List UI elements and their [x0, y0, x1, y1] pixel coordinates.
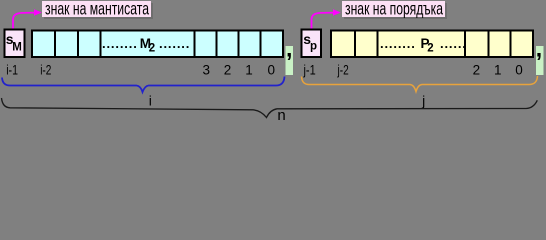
svg-text:i: i [149, 93, 152, 109]
arrow from sp box to exponent-sign label [312, 9, 341, 28]
radix point strip (comma) between mantissa and exponent [286, 36, 294, 76]
exponent register box [331, 31, 533, 58]
arrow from sM box to mantissa-sign label [13, 9, 42, 28]
radix point strip (comma) at far right [536, 36, 544, 76]
svg-text:j-1: j-1 [303, 63, 316, 78]
bit index labels under mantissa [6, 63, 275, 78]
orange brace spanning exponent field (width j) [302, 76, 538, 92]
svg-text:j-2: j-2 [337, 63, 349, 78]
label: знак на мантисата [42, 0, 153, 19]
mantissa middle cell content: dots and M2 [102, 36, 190, 55]
black brace spanning whole word (width n) [2, 98, 538, 118]
svg-text:......: ...... [440, 36, 467, 51]
sign box sM (mantissa sign) [5, 30, 25, 58]
svg-text:знак на мантисата: знак на мантисата [45, 0, 149, 18]
svg-text:2: 2 [473, 63, 481, 78]
svg-text:2: 2 [149, 43, 155, 55]
svg-text:p: p [310, 40, 317, 52]
svg-text:1: 1 [494, 63, 502, 78]
svg-text:3: 3 [203, 63, 211, 78]
exponent middle cell content: dots and P2 [380, 36, 467, 55]
svg-text:2: 2 [224, 63, 232, 78]
svg-text:i-1: i-1 [6, 63, 18, 78]
svg-text:0: 0 [268, 63, 276, 78]
svg-text:M: M [12, 42, 22, 54]
svg-text:0: 0 [515, 63, 523, 78]
blue brace spanning mantissa field (width i) [2, 77, 285, 93]
svg-text:знак на порядъка: знак на порядъка [345, 0, 443, 18]
svg-text:.......: ....... [159, 36, 190, 51]
label: знак на порядъка [342, 0, 447, 19]
exponent cell dividers [355, 30, 511, 58]
mantissa register box [32, 31, 283, 58]
mantissa cell dividers [55, 30, 261, 58]
svg-text:........: ........ [102, 36, 138, 51]
svg-text:........: ........ [380, 36, 416, 51]
svg-text:,: , [286, 36, 292, 62]
svg-text:2: 2 [427, 43, 433, 55]
svg-text:i-2: i-2 [40, 63, 51, 78]
bit index labels under exponent [303, 63, 523, 78]
svg-text:n: n [277, 107, 285, 124]
sign box sp (exponent sign) [302, 30, 322, 58]
svg-text:1: 1 [245, 63, 253, 78]
svg-text:,: , [536, 36, 542, 62]
svg-text:j: j [421, 93, 425, 109]
